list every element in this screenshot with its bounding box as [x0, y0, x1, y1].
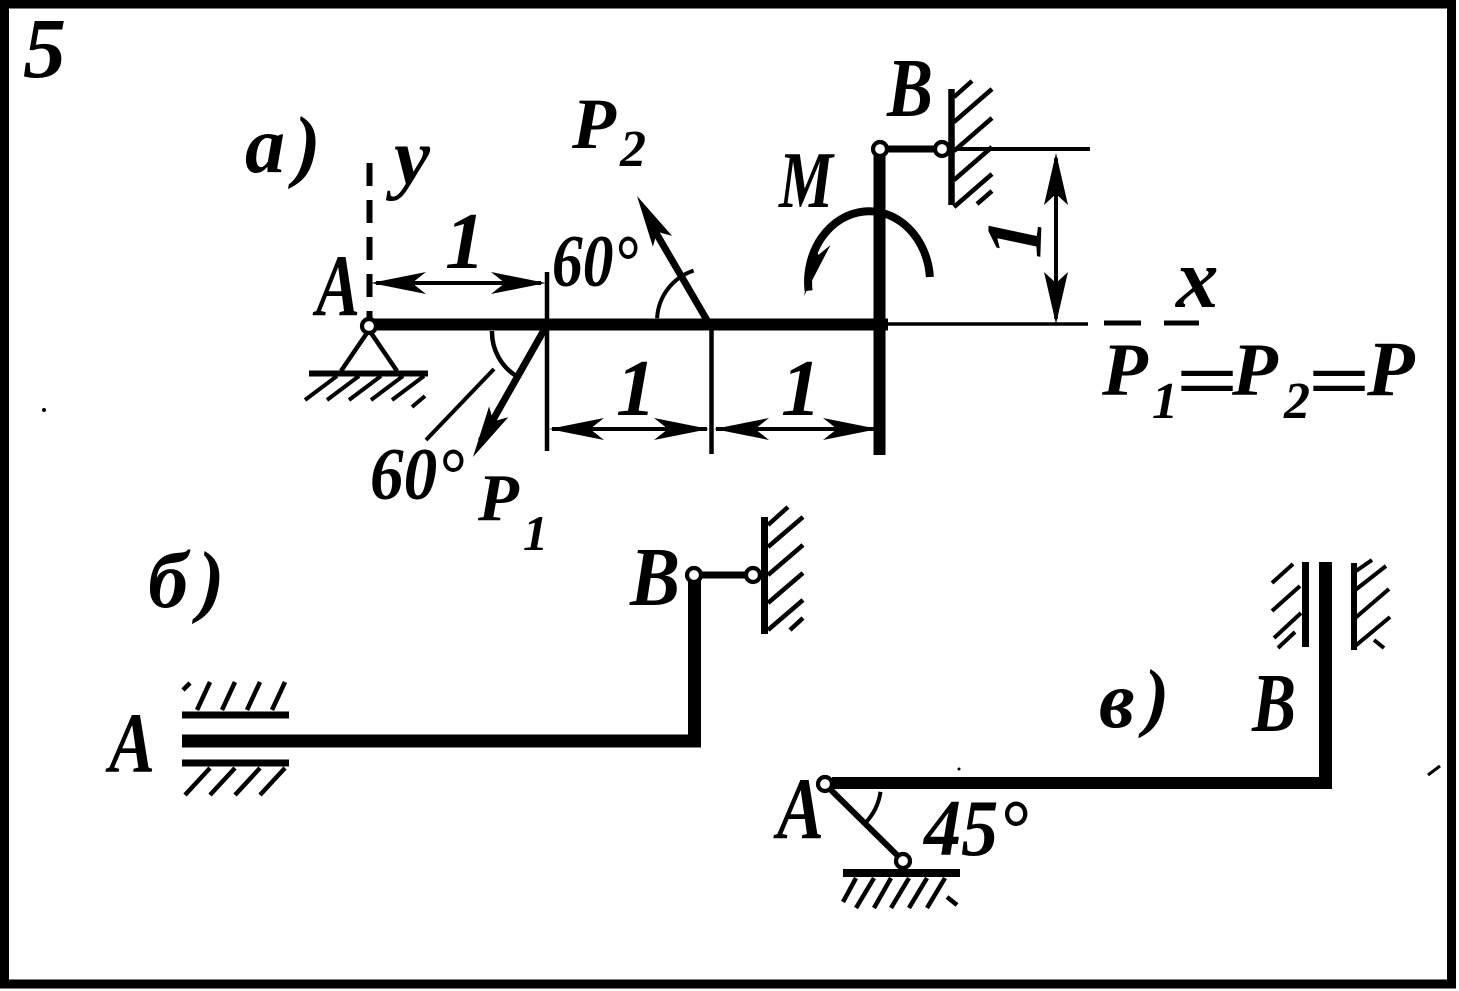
svg-text:б): б) — [148, 537, 235, 625]
svg-text:2: 2 — [1283, 373, 1310, 430]
svg-text:60°: 60° — [370, 434, 464, 516]
svg-text:B: B — [629, 531, 680, 624]
svg-text:60°: 60° — [552, 221, 638, 303]
svg-text:1: 1 — [523, 505, 548, 561]
svg-text:P: P — [571, 84, 617, 164]
svg-text:1: 1 — [445, 198, 485, 286]
svg-text:P: P — [1366, 325, 1416, 412]
svg-text:A: A — [312, 238, 360, 335]
svg-text:B: B — [886, 42, 933, 135]
svg-text:P: P — [1231, 329, 1279, 412]
svg-text:B: B — [1251, 657, 1296, 750]
svg-text:=: = — [1307, 340, 1370, 423]
svg-text:P: P — [477, 461, 520, 535]
svg-text:2: 2 — [619, 121, 646, 178]
svg-text:x: x — [1174, 232, 1219, 326]
svg-text:1: 1 — [616, 345, 656, 433]
svg-text:A: A — [773, 761, 824, 858]
svg-text:M: M — [777, 137, 835, 225]
svg-text:45°: 45° — [922, 785, 1028, 873]
svg-text:1: 1 — [970, 216, 1059, 259]
svg-text:1: 1 — [781, 345, 821, 433]
svg-text:P: P — [1101, 329, 1149, 412]
svg-text:5: 5 — [23, 0, 66, 96]
svg-text:a): a) — [245, 102, 330, 190]
svg-text:=: = — [1175, 340, 1238, 423]
svg-text:в: в — [1099, 657, 1135, 745]
svg-text:A: A — [105, 695, 155, 791]
